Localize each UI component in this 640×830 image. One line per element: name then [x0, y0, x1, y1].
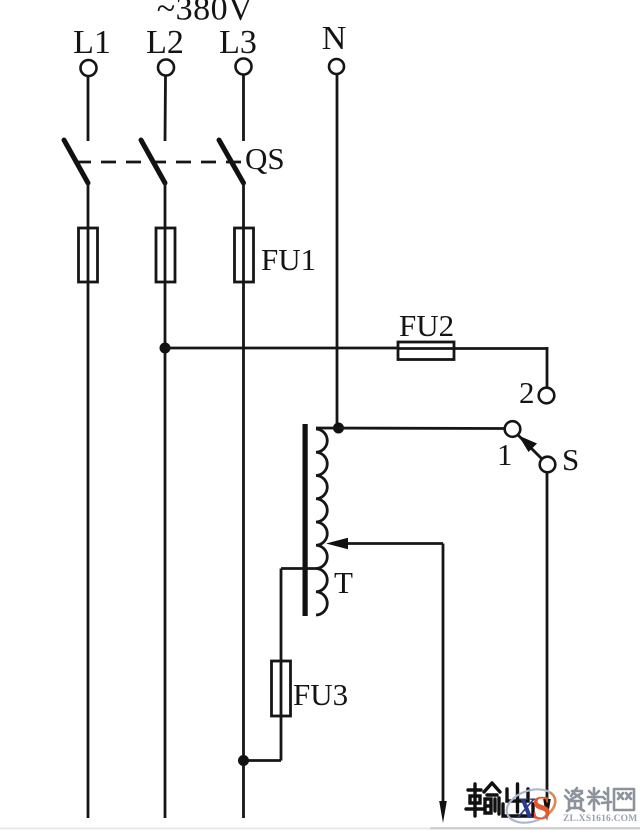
svg-text:L2: L2	[146, 24, 184, 61]
arrow output left	[439, 801, 447, 823]
switch S contact 1	[505, 421, 521, 437]
arrow output right	[543, 799, 551, 821]
terminal L1	[81, 60, 97, 76]
wire L1 terminal to QS	[87, 77, 90, 142]
terminal L3	[236, 59, 252, 75]
svg-text:S: S	[562, 442, 579, 477]
svg-text:2: 2	[519, 375, 535, 410]
node junction on L3	[238, 755, 249, 766]
arrow slider tap	[326, 538, 348, 549]
wire transformer top to contact 1	[316, 427, 505, 430]
wire slider tap horizontal	[344, 542, 443, 545]
wire tap down to output	[442, 544, 445, 803]
svg-text:N: N	[322, 20, 347, 57]
wire N vertical	[336, 75, 339, 429]
fuse FU2	[398, 347, 454, 350]
terminal N	[329, 59, 344, 74]
transformer T winding	[316, 429, 327, 615]
wire bus L2 to FU2	[165, 347, 398, 350]
wire L2 QS to FU1	[164, 183, 167, 228]
wire S common down to output	[546, 473, 549, 801]
wire L2 terminal to QS	[164, 76, 167, 141]
svg-text:FU1: FU1	[261, 242, 316, 277]
svg-text:S: S	[532, 790, 551, 827]
svg-text:L3: L3	[219, 24, 257, 61]
switch QS pole 2 blade	[141, 140, 165, 183]
switch S contact 2	[539, 388, 555, 404]
wire corner down to contact 2	[546, 347, 549, 388]
QS mechanical link dashed line	[76, 161, 244, 164]
wire L1 QS to FU1	[87, 183, 90, 228]
svg-text:T: T	[334, 565, 353, 600]
wire L2 down to bottom	[164, 282, 167, 818]
label 出 (output char 2)	[503, 784, 533, 816]
wire L3 terminal to QS	[242, 75, 245, 141]
svg-text:FU3: FU3	[293, 677, 348, 712]
switch QS pole 3 blade	[219, 140, 244, 183]
node junction transformer top / N	[333, 423, 344, 434]
fuse FU3	[280, 661, 283, 716]
svg-text:1: 1	[497, 437, 513, 472]
switch S common contact	[540, 457, 556, 473]
fuse FU1 pole 1	[87, 228, 90, 282]
svg-text:FU2: FU2	[399, 308, 454, 343]
wire bottom tap down to FU3	[280, 569, 283, 662]
wire L3 QS to FU1	[242, 183, 245, 228]
wire FU3 to L3	[244, 759, 282, 762]
svg-text:ZL.XS1616.COM: ZL.XS1616.COM	[563, 814, 637, 824]
watermark 资	[565, 788, 584, 811]
watermark 料	[588, 788, 611, 810]
switch S blade with arrow	[518, 435, 543, 460]
fuse FU1 pole 2	[164, 228, 167, 282]
svg-text:L1: L1	[73, 24, 111, 61]
watermark 网	[614, 789, 634, 810]
terminal L2	[158, 60, 174, 76]
label 输 (output char 1)	[466, 783, 500, 816]
fuse FU1 pole 3	[242, 228, 245, 282]
transformer T core	[303, 424, 308, 616]
wire FU2 to corner	[454, 347, 548, 350]
scan smudge bottom edge	[0, 828, 640, 830]
wire L3 down to bottom	[242, 282, 245, 818]
watermark logo ellipse	[502, 784, 559, 829]
wire L1 down to bottom	[87, 282, 90, 818]
node junction on L2	[160, 343, 171, 354]
switch QS pole 1 blade	[64, 140, 88, 183]
wire FU3 down	[280, 716, 283, 761]
svg-text:QS: QS	[245, 141, 285, 176]
wire bottom tap horizontal	[281, 567, 316, 570]
